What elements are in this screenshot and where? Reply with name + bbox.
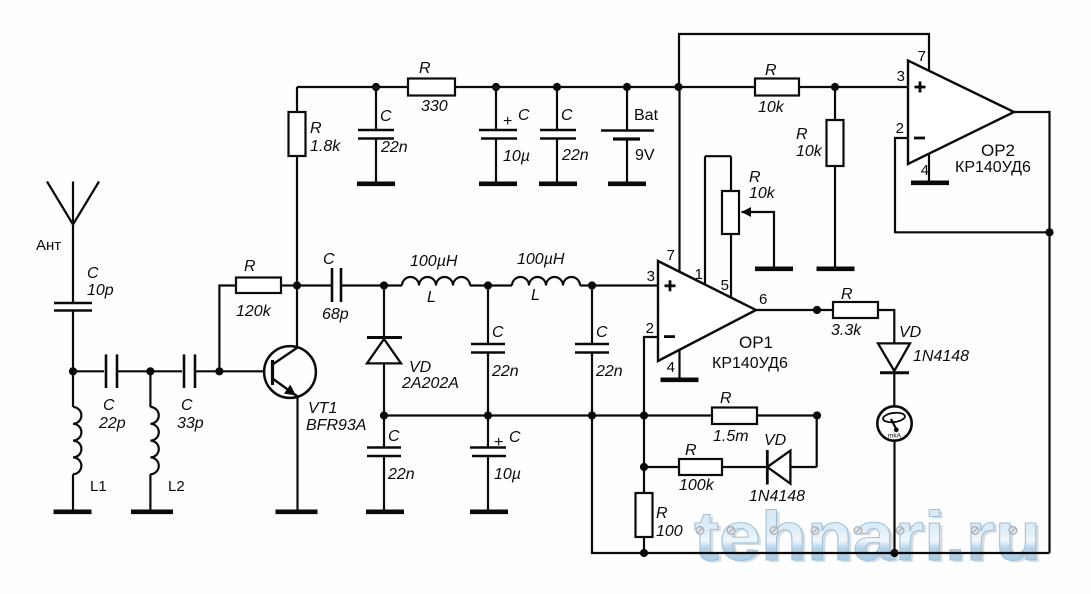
svg-text:C: C <box>323 251 335 268</box>
svg-text:C: C <box>181 397 193 414</box>
svg-text:C: C <box>596 324 608 341</box>
svg-text:10k: 10k <box>758 99 785 116</box>
ground C6 <box>539 182 577 187</box>
capacitor C11 10µ electrolytic bottom <box>470 416 521 510</box>
ground L2 <box>131 509 173 514</box>
ground R6 wiper <box>755 266 793 271</box>
svg-text:R: R <box>796 126 808 143</box>
svg-text:2: 2 <box>896 120 904 137</box>
svg-text:100µH: 100µH <box>517 251 565 268</box>
svg-text:100µH: 100µH <box>410 253 458 270</box>
resistor R1 120k <box>219 258 297 371</box>
svg-text:10µ: 10µ <box>494 466 521 483</box>
node detector input <box>380 281 388 289</box>
ground C11 <box>470 509 508 514</box>
node bottom bus meter <box>890 549 898 557</box>
pin 4 OP1 <box>661 350 699 380</box>
svg-text:3: 3 <box>647 268 655 285</box>
svg-text:КР140УД6: КР140УД6 <box>712 355 788 372</box>
pin 3 label OP2 <box>897 68 905 85</box>
wire meter to bottom bus <box>893 441 895 553</box>
wire OP2 pin2 feedback <box>895 138 1050 232</box>
capacitor C3 33p <box>177 354 204 432</box>
wire filter to OP1 input <box>592 284 657 286</box>
resistor R8 100k <box>644 442 722 494</box>
node base branch <box>215 367 223 375</box>
pin 2 label OP2 <box>896 120 904 137</box>
svg-text:C: C <box>561 107 573 124</box>
pin 3 label OP1 <box>647 268 655 285</box>
svg-text:C: C <box>509 429 521 446</box>
resistor R3 330 <box>408 60 455 115</box>
svg-text:5: 5 <box>721 277 729 294</box>
wire OP1 output <box>756 309 833 311</box>
inductor L4 100µH <box>488 251 592 304</box>
pin 7 OP1 <box>667 87 680 272</box>
wire top bus middle <box>455 86 755 88</box>
svg-text:100k: 100k <box>679 477 715 494</box>
capacitor C2 22p <box>98 354 126 432</box>
inductor L2 <box>150 371 184 509</box>
svg-text:R: R <box>720 390 732 407</box>
wire bus riser to OP amps <box>679 34 929 87</box>
svg-text:VD: VD <box>764 432 787 449</box>
node input junction L1 <box>69 367 77 375</box>
svg-text:3: 3 <box>897 68 905 85</box>
svg-text:1N4148: 1N4148 <box>913 348 969 365</box>
resistor R7 1.5m <box>712 390 757 445</box>
ground C4 <box>357 182 395 187</box>
svg-text:1N4148: 1N4148 <box>749 488 805 505</box>
capacitor C5 10µ electrolytic <box>479 87 530 182</box>
node bus C4 <box>372 83 380 91</box>
svg-text:L: L <box>531 287 540 304</box>
svg-text:2: 2 <box>646 320 654 337</box>
capacitor C4 22n <box>358 87 408 182</box>
wire R9 to VD3 <box>878 310 894 343</box>
svg-text:4: 4 <box>921 162 929 179</box>
battery Bat 9V <box>601 87 659 182</box>
pin 4 OP2 <box>911 154 949 183</box>
wire mid bus <box>384 414 712 416</box>
node mid bus feedback <box>640 411 648 419</box>
svg-text:22p: 22p <box>98 415 126 432</box>
svg-text:7: 7 <box>918 48 926 65</box>
svg-text:6: 6 <box>759 291 767 308</box>
pin 1 OP1 wire <box>695 156 705 284</box>
svg-text:68p: 68p <box>322 306 349 323</box>
node OP2 feedback <box>1045 228 1053 236</box>
ground L1 <box>54 509 92 514</box>
svg-text:tehnari.ru: tehnari.ru <box>694 497 1041 575</box>
potentiometer R6 10k <box>705 156 776 266</box>
meter PA1 мкА <box>877 406 911 440</box>
svg-text:R: R <box>685 442 697 459</box>
resistor R10 100 <box>636 467 683 553</box>
resistor R4 10k <box>755 62 799 116</box>
svg-text:BFR93A: BFR93A <box>306 417 366 434</box>
pin 5 OP1 wire <box>721 234 731 298</box>
wire VT1 collector <box>296 286 298 348</box>
svg-text:120k: 120k <box>236 303 272 320</box>
svg-text:22n: 22n <box>561 147 589 164</box>
wire diode branch up <box>816 416 818 468</box>
wire OP1 pin2 feedback <box>644 337 657 416</box>
wire node to C3 <box>150 370 182 372</box>
svg-text:Ант: Ант <box>36 237 61 254</box>
node bus C5 <box>492 83 500 91</box>
wire input node to C2 <box>73 370 104 372</box>
svg-text:22n: 22n <box>595 363 623 380</box>
resistor R5 10k <box>796 87 844 267</box>
node OP1 output <box>813 306 821 314</box>
svg-text:22n: 22n <box>387 466 415 483</box>
svg-text:10k: 10k <box>749 185 776 202</box>
svg-text:C: C <box>103 397 115 414</box>
svg-text:R: R <box>419 60 431 77</box>
svg-text:OP2: OP2 <box>981 141 1015 160</box>
svg-text:VD: VD <box>409 359 432 376</box>
node mid bus down <box>588 411 596 419</box>
resistor R9 3.3k <box>831 286 878 339</box>
node filter 1 <box>484 281 492 289</box>
svg-text:OP1: OP1 <box>739 333 773 352</box>
transistor VT1 BFR93A <box>264 346 366 434</box>
svg-text:9V: 9V <box>635 147 655 164</box>
svg-text:C: C <box>87 265 99 282</box>
op-amp OP1 КР140УД6 <box>658 261 788 372</box>
op-amp OP2 КР140УД6 <box>908 61 1031 177</box>
capacitor C6 22n <box>540 87 589 182</box>
svg-text:1: 1 <box>695 266 703 283</box>
resistor R2 1.8k <box>289 87 342 286</box>
capacitor C10 22n bottom <box>367 416 415 510</box>
wire top bus left <box>297 86 408 88</box>
svg-text:1.5m: 1.5m <box>713 428 749 445</box>
node mid bus VD1 <box>380 411 388 419</box>
diode VD1 2A202A <box>367 286 459 416</box>
svg-text:10p: 10p <box>87 282 114 299</box>
svg-text:100: 100 <box>656 523 683 540</box>
inductor L3 100µH <box>384 253 488 306</box>
wire C1 to input node <box>72 311 74 372</box>
wire C3 to base node <box>196 370 219 372</box>
svg-text:R: R <box>765 62 777 79</box>
node junction L2 <box>146 367 154 375</box>
capacitor C7 68p <box>297 251 384 323</box>
svg-text:+: + <box>494 434 503 451</box>
node feedback R8 <box>640 463 648 471</box>
svg-text:R: R <box>841 286 853 303</box>
svg-text:C: C <box>492 324 504 341</box>
inductor L1 <box>73 371 107 509</box>
node collector junction <box>293 281 301 289</box>
node bus R5 <box>831 83 839 91</box>
node filter 2 <box>588 281 596 289</box>
svg-text:L1: L1 <box>90 478 107 495</box>
wire bus to OP2 input <box>799 86 908 88</box>
diode VD3 1N4148 <box>878 324 969 406</box>
node bus riser <box>674 83 682 91</box>
pin 7 label OP2 <box>918 48 926 65</box>
node bus C6 <box>553 83 561 91</box>
svg-text:22n: 22n <box>380 139 408 156</box>
svg-text:L2: L2 <box>168 478 185 495</box>
wire bottom bus <box>592 416 1050 554</box>
node bottom bus R10 <box>640 549 648 557</box>
svg-text:10µ: 10µ <box>503 148 530 165</box>
svg-text:R: R <box>310 120 322 137</box>
ground VT1 emitter <box>276 509 318 514</box>
ground Bat <box>608 182 646 187</box>
svg-text:VD: VD <box>899 324 922 341</box>
wire base node to VT1 base <box>219 370 264 372</box>
svg-text:C: C <box>518 107 530 124</box>
wire C2 to node L2 <box>118 370 150 372</box>
ground C10 <box>366 509 404 514</box>
svg-text:VT1: VT1 <box>308 400 337 417</box>
ground C5 <box>479 182 517 187</box>
svg-text:2A202A: 2A202A <box>401 375 459 392</box>
wire mid bus right <box>757 414 817 416</box>
node output branch mid <box>813 411 821 419</box>
svg-text:Bat: Bat <box>634 107 659 124</box>
svg-text:C: C <box>388 428 400 445</box>
pin 6 label OP1 <box>759 291 767 308</box>
svg-text:33p: 33p <box>177 415 204 432</box>
svg-text:КР140УД6: КР140УД6 <box>955 159 1031 176</box>
svg-text:R: R <box>656 505 668 522</box>
diode VD2 1N4148 <box>722 432 817 505</box>
capacitor C1 10p <box>54 265 114 311</box>
svg-text:3.3k: 3.3k <box>831 322 862 339</box>
svg-text:+: + <box>503 113 512 130</box>
svg-text:330: 330 <box>421 98 448 115</box>
pin 2 label OP1 <box>646 320 654 337</box>
wire VT1 emitter to ground <box>296 397 298 510</box>
wire OP2 output down <box>1048 232 1050 553</box>
wire feedback down <box>643 416 645 468</box>
node mid bus C10 <box>484 411 492 419</box>
watermark tehnari.ru <box>694 497 1044 577</box>
node bus Bat <box>623 83 631 91</box>
wire OP2 output <box>1014 112 1050 232</box>
svg-text:22n: 22n <box>491 363 519 380</box>
svg-text:mkA: mkA <box>888 433 902 440</box>
ground R5 <box>817 266 855 271</box>
svg-text:R: R <box>749 169 761 186</box>
capacitor C9 22n <box>575 286 623 416</box>
svg-text:10k: 10k <box>796 143 823 160</box>
antenna Ант <box>36 182 99 303</box>
svg-text:4: 4 <box>667 359 675 376</box>
capacitor C8 22n <box>471 286 519 416</box>
svg-text:L: L <box>427 289 436 306</box>
svg-text:1.8k: 1.8k <box>310 138 341 155</box>
svg-text:C: C <box>380 108 392 125</box>
svg-text:R: R <box>244 258 256 275</box>
svg-text:7: 7 <box>667 247 675 264</box>
